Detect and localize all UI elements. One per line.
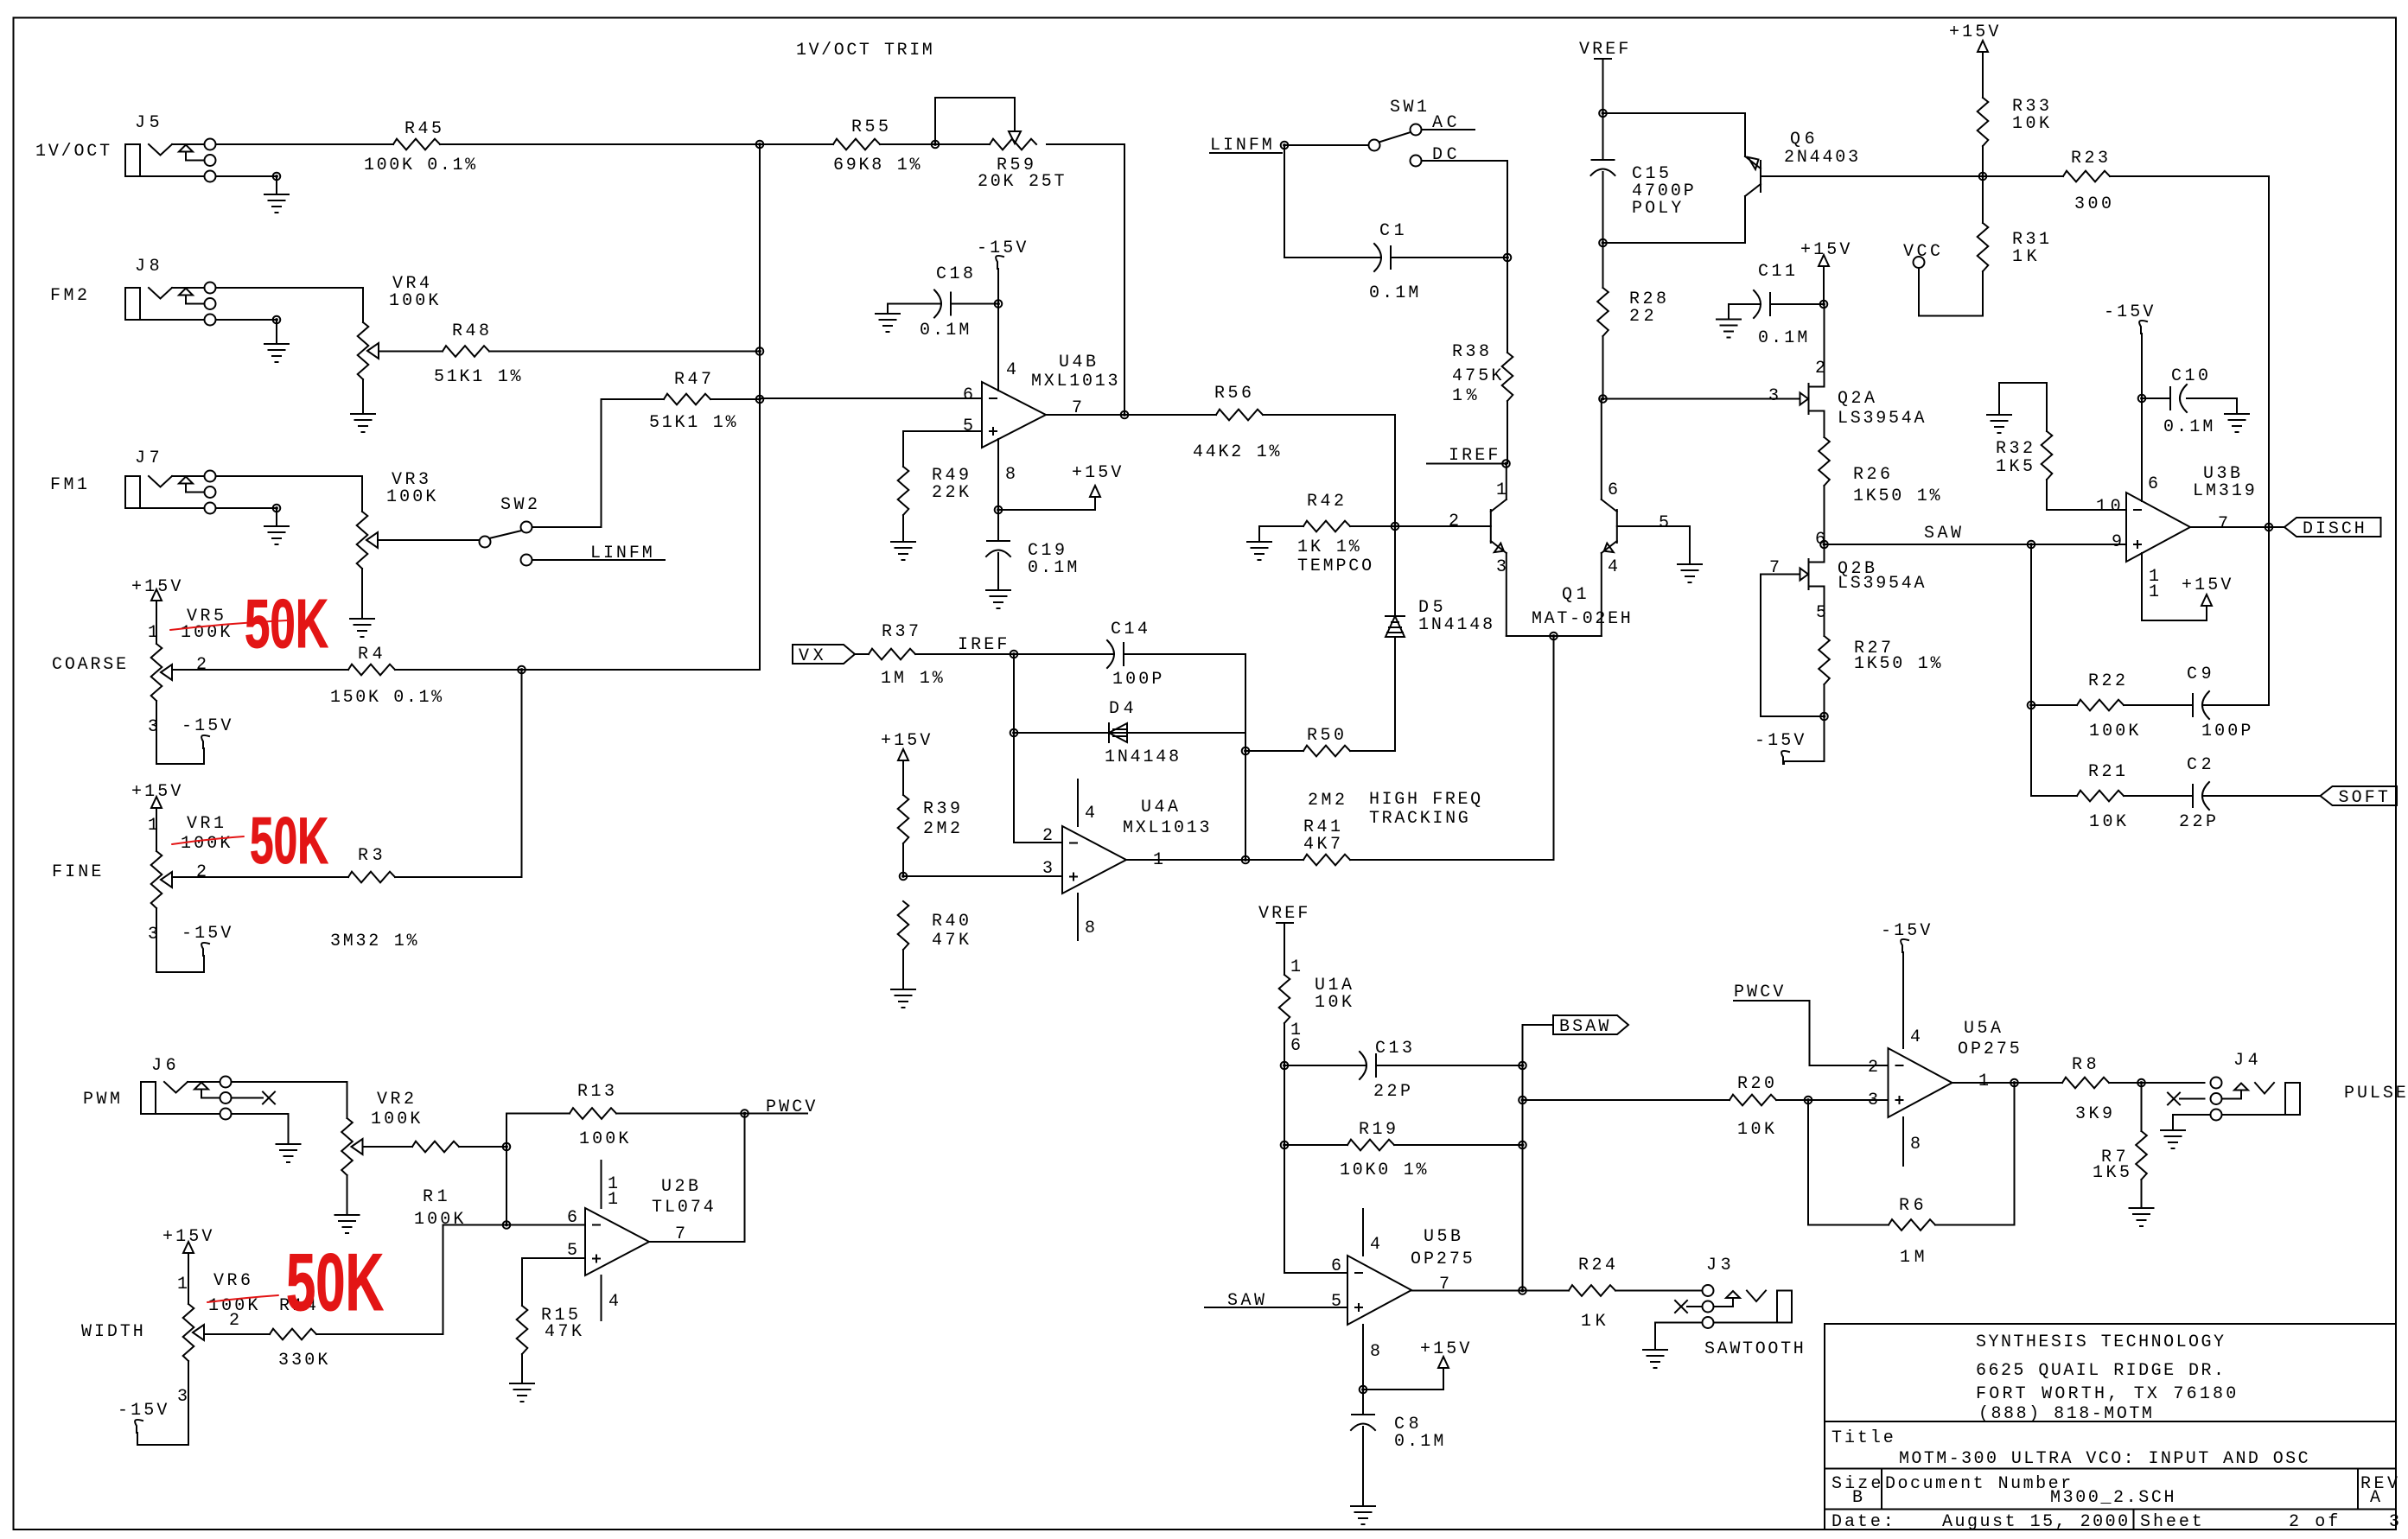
svg-text:22P: 22P [2179, 812, 2216, 832]
junction C18/pin4 [995, 300, 1003, 308]
svg-text:8: 8 [1370, 1342, 1380, 1362]
capacitor C9 100P [2184, 527, 2269, 741]
transistor Q1 right half [1602, 399, 1669, 637]
junction R8/R7 [2137, 1079, 2145, 1087]
junction U5A out/R6 [2010, 1079, 2018, 1087]
svg-text:Date:: Date: [1831, 1512, 1894, 1532]
power +15V at R33 [1949, 22, 1998, 98]
svg-text:7: 7 [1439, 1275, 1449, 1294]
svg-text:10K: 10K [2089, 812, 2126, 832]
resistor R28 22 [1597, 243, 1666, 399]
svg-text:FM1: FM1 [50, 475, 87, 495]
svg-text:5: 5 [1659, 513, 1669, 533]
svg-text:VREF: VREF [1258, 904, 1308, 924]
resistor R4 150K [172, 645, 522, 708]
ground at J4 [2161, 1130, 2185, 1148]
wire D4 vertical [1245, 733, 1246, 860]
junction U5B out/BSAW riser [1519, 1287, 1526, 1294]
svg-text:2N4403: 2N4403 [1784, 148, 1858, 168]
resistor R49 22K [898, 466, 969, 540]
wire U5B pin6 [1284, 1272, 1347, 1274]
svg-text:R3: R3 [358, 846, 383, 866]
svg-text:3: 3 [1496, 557, 1507, 577]
wire LINFM to SW1 [1284, 144, 1369, 146]
svg-text:Q2A: Q2A [1838, 389, 1875, 409]
svg-text:C1: C1 [1379, 221, 1405, 241]
junction C13 left [1281, 1062, 1289, 1070]
wire Q1 base [1395, 525, 1491, 527]
jack J4 (PULSE output) [2211, 1051, 2406, 1121]
svg-text:DISCH: DISCH [2303, 519, 2365, 539]
svg-text:3: 3 [177, 1387, 188, 1407]
svg-text:LINFM: LINFM [590, 544, 653, 563]
resistor R27 1K50 [1819, 636, 1941, 716]
svg-text:44K2 1%: 44K2 1% [1193, 442, 1280, 462]
resistor R38 475K [1452, 258, 1513, 463]
svg-text:50K: 50K [250, 804, 328, 878]
svg-text:1N4148: 1N4148 [1418, 615, 1493, 635]
junction U4B out/R59 wire [1121, 411, 1129, 419]
resistor R55 [760, 118, 935, 175]
svg-text:330K: 330K [278, 1351, 328, 1370]
svg-text:1K5: 1K5 [1996, 457, 2033, 477]
wire R23 to DISCH node [2268, 176, 2270, 527]
wire IREF down to D4 row [1013, 654, 1015, 733]
svg-text:2: 2 [196, 655, 207, 675]
svg-text:10K: 10K [1737, 1120, 1774, 1140]
svg-text:5: 5 [1331, 1292, 1341, 1312]
svg-text:R42: R42 [1307, 492, 1344, 512]
pot VR5 COARSE [52, 601, 230, 764]
svg-text:PWCV: PWCV [1734, 983, 1783, 1002]
ground at C11 [1717, 320, 1741, 338]
resistor R26 1K50 [1819, 437, 1940, 544]
pot VR1 FINE [52, 808, 230, 972]
svg-text:-15V: -15V [1755, 731, 1804, 751]
junction at J8 sleeve [273, 316, 281, 324]
svg-text:1: 1 [1290, 957, 1301, 977]
svg-text:1K 1%: 1K 1% [1297, 537, 1360, 557]
svg-text:3: 3 [148, 925, 158, 944]
svg-text:R56: R56 [1214, 384, 1252, 404]
wire J5 sleeve to ground [216, 176, 277, 194]
op-amp U5B OP275 [1331, 1209, 1473, 1390]
svg-text:R39: R39 [923, 799, 960, 819]
svg-text:MXL1013: MXL1013 [1123, 818, 1210, 838]
title block [1825, 1324, 2399, 1532]
resistor R15 47K [517, 1306, 582, 1382]
svg-text:IREF: IREF [958, 635, 1007, 655]
svg-text:J7: J7 [135, 448, 160, 468]
svg-text:0.1M: 0.1M [1369, 283, 1418, 303]
svg-text:SW2: SW2 [500, 495, 538, 515]
svg-text:1: 1 [1496, 480, 1507, 500]
svg-text:1V/OCT TRIM: 1V/OCT TRIM [796, 41, 933, 60]
svg-text:3K9: 3K9 [2075, 1104, 2112, 1124]
resistor R31 1K [1978, 176, 2049, 316]
svg-text:300: 300 [2074, 194, 2112, 214]
svg-text:R26: R26 [1853, 465, 1890, 485]
capacitor C10 [2142, 366, 2237, 437]
svg-text:R40: R40 [932, 912, 969, 932]
svg-text:Title: Title [1831, 1428, 1894, 1448]
svg-text:0.1M: 0.1M [2163, 417, 2213, 437]
svg-text:TEMPCO: TEMPCO [1297, 556, 1372, 576]
resistor R3 3M32 [172, 846, 522, 951]
resistor R33 10K [1978, 97, 2049, 176]
wire node to VX riser [522, 399, 761, 670]
net label LINFM at SW2 [521, 544, 666, 566]
svg-text:LM319: LM319 [2193, 481, 2255, 501]
net stub DC to C1 [1422, 145, 1508, 258]
wire SW2 to R47 [532, 399, 602, 527]
junction R55/R59 trim tap [932, 141, 940, 149]
net flag SOFT [2321, 786, 2398, 808]
svg-text:9: 9 [2112, 532, 2122, 552]
wire U4B output [1046, 414, 1124, 416]
svg-text:100K: 100K [414, 1210, 463, 1230]
svg-text:50K: 50K [286, 1237, 384, 1327]
svg-text:-15V: -15V [182, 716, 231, 736]
svg-text:C11: C11 [1758, 262, 1795, 282]
wire Q1 emitters common [1507, 635, 1602, 637]
svg-text:R8: R8 [2072, 1055, 2097, 1075]
junction SAW/R22 riser [2028, 541, 2035, 549]
svg-text:+15V: +15V [1420, 1339, 1469, 1359]
svg-text:20K 25T: 20K 25T [978, 172, 1065, 192]
svg-text:OP275: OP275 [1411, 1250, 1473, 1269]
svg-text:TL074: TL074 [652, 1198, 714, 1218]
svg-text:3: 3 [2389, 1512, 2399, 1532]
svg-text:C18: C18 [936, 264, 973, 284]
svg-text:3M32 1%: 3M32 1% [330, 932, 417, 951]
net stub PWCV right [1734, 983, 1810, 1065]
ground at VR2 [335, 1215, 360, 1233]
svg-text:1N4148: 1N4148 [1105, 747, 1179, 767]
svg-text:10K0 1%: 10K0 1% [1340, 1161, 1427, 1180]
svg-text:4: 4 [1085, 804, 1095, 824]
red strike VR6 100K [207, 1295, 278, 1302]
junction U4A out/R41 [1242, 856, 1250, 864]
resistor R13 100K [506, 1082, 745, 1149]
svg-text:+15V: +15V [2182, 576, 2231, 595]
capacitor C18 [888, 264, 998, 340]
junction R19 right [1519, 1142, 1526, 1149]
junction at J5 sleeve [273, 173, 281, 181]
pot VR2 100K [232, 1082, 421, 1213]
svg-text:U5A: U5A [1964, 1019, 2001, 1039]
svg-text:51K1 1%: 51K1 1% [434, 367, 521, 387]
net label IREF at Q1 [1427, 446, 1507, 466]
resistor R42 1K TEMPCO [1259, 492, 1395, 576]
svg-text:Q6: Q6 [1790, 130, 1815, 149]
red strike VR1 100K [172, 836, 244, 844]
diode D5 1N4148 [1386, 526, 1493, 637]
resistor network U1A 10K [1279, 957, 1352, 1065]
svg-text:D4: D4 [1109, 699, 1134, 719]
svg-text:7: 7 [1769, 558, 1780, 578]
ground at J3 [1643, 1350, 1667, 1368]
resistor R40 47K [898, 901, 969, 988]
svg-text:100K: 100K [181, 834, 230, 854]
svg-text:1: 1 [1978, 1072, 1989, 1091]
wire U2B output to PWCV [649, 1114, 745, 1243]
wire R13 riser [506, 1114, 507, 1148]
svg-text:VR5: VR5 [187, 607, 224, 626]
power +15V at U4B pin8 [998, 463, 1121, 510]
svg-text:1M 1%: 1M 1% [881, 669, 944, 689]
svg-text:1: 1 [148, 623, 158, 643]
wire U4B pin8 [997, 439, 999, 510]
svg-text:C10: C10 [2171, 366, 2208, 386]
transistor Q1 left half [1449, 464, 1507, 637]
ground at C8 [1351, 1506, 1375, 1524]
resistor R24 1K [1569, 1256, 1703, 1332]
svg-text:5: 5 [1816, 603, 1826, 623]
net label IREF at VX [958, 635, 1007, 655]
svg-text:6625 QUAIL RIDGE DR.: 6625 QUAIL RIDGE DR. [1976, 1361, 2224, 1381]
wire J4 sleeve to ground [2173, 1115, 2211, 1129]
svg-text:6: 6 [2148, 474, 2158, 494]
transistor Q6 2N4403 [1745, 130, 1858, 196]
pot VR4 100K [216, 274, 439, 412]
power flag VCC [1903, 242, 1983, 316]
resistor R22 100K [2031, 671, 2193, 741]
svg-text:1V/OCT: 1V/OCT [35, 142, 110, 162]
wire U3B output [2190, 526, 2284, 528]
svg-text:50K: 50K [245, 585, 328, 662]
junction C10/-15V/pin6 [2138, 395, 2146, 403]
transistor Q2B LS3954A [1769, 530, 1925, 636]
power -15V at VR1 [156, 924, 231, 972]
svg-text:2: 2 [196, 862, 207, 882]
wire pin4 [997, 304, 999, 391]
wire R28 node to Q2A gate [1603, 398, 1800, 400]
wire Q6 base to R33 node [1761, 175, 1983, 177]
jack J6 (PWM input) [83, 1056, 232, 1120]
op-amp U4B MXL1013 [963, 353, 1118, 485]
svg-text:HIGH FREQ: HIGH FREQ [1369, 790, 1481, 810]
svg-text:7: 7 [2218, 514, 2228, 534]
wire U3B pin6 riser [2141, 398, 2143, 501]
junction D4/C14 vertical at R50 [1242, 747, 1250, 755]
junction R45/R55/vertical [756, 141, 764, 149]
junction IREF/R38/Q1 pin1 [1502, 460, 1510, 467]
svg-text:4: 4 [608, 1292, 619, 1312]
ground at R42 [1247, 542, 1271, 560]
wire R6 feedback [1808, 1100, 1889, 1225]
svg-text:1K: 1K [1581, 1312, 1606, 1332]
junction VREF/C15 [1599, 110, 1607, 118]
svg-text:A: A [2370, 1488, 2380, 1508]
op-amp U3B LM319 [2096, 464, 2255, 562]
jack J7 (FM1 input) [50, 448, 216, 514]
svg-text:TRACKING: TRACKING [1369, 809, 1468, 829]
svg-text:1: 1 [177, 1275, 188, 1294]
wire R56 to R42 node [1394, 415, 1396, 526]
power -15V at VR5 [156, 716, 231, 764]
svg-text:C14: C14 [1111, 620, 1148, 639]
svg-text:4: 4 [1608, 557, 1618, 577]
wire C14 corner down [1245, 654, 1246, 733]
svg-text:MAT-02EH: MAT-02EH [1532, 609, 1631, 629]
switch SW1 [1369, 98, 1428, 167]
svg-text:FORT WORTH, TX 76180: FORT WORTH, TX 76180 [1976, 1384, 2236, 1404]
svg-text:100K: 100K [389, 291, 438, 311]
op-amp U4A MXL1013 [1042, 779, 1210, 940]
svg-text:5: 5 [963, 417, 973, 436]
junction R48/vertical [756, 347, 764, 355]
resistor R23 300 [1983, 149, 2269, 214]
transistor Q2A LS3954A [1768, 304, 1925, 437]
svg-text:8: 8 [1910, 1135, 1921, 1154]
resistor R39 2M2 [898, 795, 960, 876]
resistor R48 [379, 321, 760, 387]
pot VR3 100K [216, 470, 436, 617]
svg-text:2M2: 2M2 [1308, 791, 1345, 811]
svg-text:0.1M: 0.1M [1394, 1432, 1443, 1452]
svg-text:MXL1013: MXL1013 [1031, 372, 1118, 391]
wire C15 to Q6 collector [1603, 196, 1746, 243]
ground at J7 [264, 526, 289, 544]
svg-text:VR3: VR3 [392, 470, 429, 490]
svg-text:100K: 100K [386, 487, 436, 507]
capacitor C15 4700P POLY [1591, 113, 1694, 243]
jack J3 (SAWTOOTH output) [1703, 1256, 1804, 1359]
net flag VX [793, 645, 855, 666]
ground at J5 [264, 194, 289, 213]
svg-text:+15V: +15V [1949, 22, 1998, 42]
wire U4B pin6 input [760, 397, 982, 399]
junction C13 right [1519, 1062, 1526, 1070]
svg-text:100K 0.1%: 100K 0.1% [364, 156, 476, 175]
svg-text:8: 8 [1085, 919, 1095, 938]
wire riser to R21 [2030, 705, 2032, 796]
svg-text:SW1: SW1 [1390, 98, 1427, 118]
svg-text:R48: R48 [452, 321, 489, 341]
ground at C18 [876, 314, 900, 332]
op-amp U5A OP275 [1868, 1019, 2020, 1166]
resistor R1 100K [363, 1142, 507, 1230]
resistor R41 4K7 [1245, 817, 1554, 865]
wire R1 node to U2B pin6 [506, 1147, 507, 1225]
svg-text:Q1: Q1 [1562, 585, 1587, 605]
svg-text:R20: R20 [1737, 1074, 1774, 1094]
junction pin8/C8 [1360, 1386, 1367, 1394]
svg-text:R1: R1 [423, 1187, 448, 1207]
svg-text:69K8 1%: 69K8 1% [833, 156, 921, 175]
power -15V at U5A pin4 [1881, 921, 1930, 1048]
wire J3 sleeve to ground [1655, 1323, 1703, 1349]
power +15V at VR1 [131, 782, 181, 808]
svg-text:3: 3 [1042, 859, 1053, 879]
svg-text:R19: R19 [1359, 1120, 1396, 1140]
svg-text:-15V: -15V [2104, 302, 2153, 322]
svg-text:1: 1 [608, 1190, 618, 1210]
junction LINFM [1281, 142, 1289, 149]
junction R20 left [1519, 1097, 1526, 1104]
resistor R19 10K0 [1284, 1120, 1523, 1180]
junction R33/R23/R31 [1979, 173, 1987, 181]
svg-text:SYNTHESIS TECHNOLOGY: SYNTHESIS TECHNOLOGY [1976, 1332, 2224, 1352]
junction R28/Q2A gate/Q1 pin6 [1599, 395, 1607, 403]
svg-text:J3: J3 [1706, 1256, 1731, 1275]
jack J8 (FM2 input) [50, 257, 216, 326]
svg-text:8: 8 [1005, 465, 1016, 485]
op-amp U2B TL074 [567, 1161, 714, 1320]
wire U4B pin5 input [903, 431, 982, 467]
svg-text:6: 6 [963, 385, 973, 405]
wire J8 sleeve to ground [216, 320, 277, 342]
note HIGH FREQ TRACKING [1369, 790, 1481, 829]
svg-text:-15V: -15V [182, 924, 231, 944]
wire U2B pin5 [522, 1258, 585, 1306]
capacitor C8 [1351, 1390, 1443, 1504]
wire R3 to R4 node [521, 670, 523, 877]
svg-text:SAWTOOTH: SAWTOOTH [1704, 1339, 1804, 1359]
resistor R56 44K2 [1124, 384, 1395, 462]
svg-text:VR2: VR2 [377, 1090, 414, 1110]
svg-text:VR6: VR6 [213, 1271, 251, 1291]
svg-text:1K50 1%: 1K50 1% [1853, 487, 1940, 506]
wire U5A pin2 [1810, 1065, 1889, 1066]
svg-text:1%: 1% [1452, 386, 1478, 406]
svg-text:4: 4 [1370, 1235, 1380, 1255]
label Q1 MAT-02EH [1532, 585, 1631, 629]
wire U4A pin3 [903, 875, 1062, 877]
wire vertical J5 net [759, 144, 761, 670]
resistor R20 10K [1523, 1074, 1809, 1140]
svg-text:1: 1 [2149, 582, 2159, 602]
no-connect X at J4 [2168, 1093, 2205, 1105]
svg-text:R6: R6 [1899, 1196, 1924, 1216]
wire U2B pin6 [506, 1224, 585, 1226]
wire pin2 riser [1014, 733, 1062, 843]
capacitor C14 [1014, 620, 1245, 690]
pot VR6 WIDTH [81, 1253, 258, 1445]
ground at C19 [986, 590, 1010, 608]
wire J7 sleeve to ground [216, 508, 277, 526]
junction IREF node [1010, 651, 1018, 658]
resistor R47 [602, 370, 761, 433]
wire J6 sleeve to ground [232, 1114, 289, 1142]
resistor R37 1M [855, 622, 1014, 689]
jack J5 (1V/OCT input) [35, 113, 216, 182]
svg-text:6: 6 [1290, 1036, 1301, 1056]
resistor R21 10K [2031, 762, 2193, 832]
svg-text:MOTM-300 ULTRA VCO: INPUT AND: MOTM-300 ULTRA VCO: INPUT AND OSC [1899, 1449, 2309, 1469]
power +15V at VR6 [162, 1227, 212, 1253]
trimpot R59 20K 25T [796, 41, 1124, 192]
power flag VREF top [1579, 40, 1628, 113]
no-connect X at J3 [1675, 1301, 1703, 1313]
svg-text:0.1M: 0.1M [1028, 558, 1077, 578]
svg-text:LS3954A: LS3954A [1838, 409, 1925, 429]
svg-text:2: 2 [1815, 359, 1825, 378]
wire U1A riser to U5B [1284, 1145, 1347, 1273]
svg-text:10: 10 [2096, 497, 2121, 517]
svg-text:LS3954A: LS3954A [1838, 574, 1925, 594]
svg-text:U5B: U5B [1424, 1227, 1461, 1247]
svg-text:2: 2 [1042, 826, 1053, 846]
svg-text:PWM: PWM [83, 1090, 120, 1110]
power +15V at Q2A [1800, 240, 1850, 304]
svg-text:6: 6 [1608, 480, 1618, 500]
svg-text:2M2: 2M2 [923, 819, 960, 839]
wire U4A output [1126, 859, 1245, 861]
svg-text:3: 3 [148, 717, 158, 737]
svg-text:100P: 100P [2201, 722, 2251, 741]
